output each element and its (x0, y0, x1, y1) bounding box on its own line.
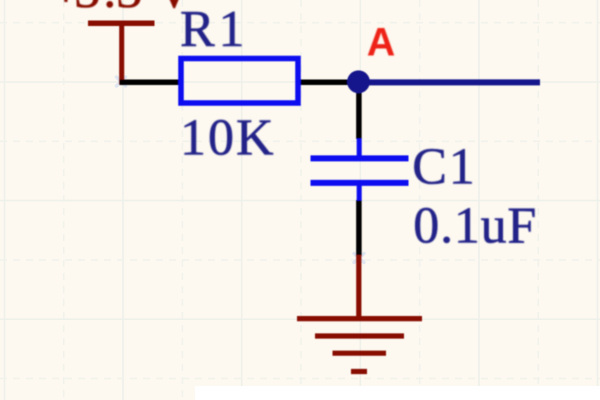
svg-text:A: A (367, 21, 396, 65)
svg-text:10K: 10K (180, 110, 274, 167)
svg-text:C1: C1 (412, 138, 475, 195)
svg-text:+3.3V: +3.3V (51, 0, 193, 19)
svg-text:0.1uF: 0.1uF (413, 198, 536, 255)
svg-text:R1: R1 (180, 1, 245, 58)
